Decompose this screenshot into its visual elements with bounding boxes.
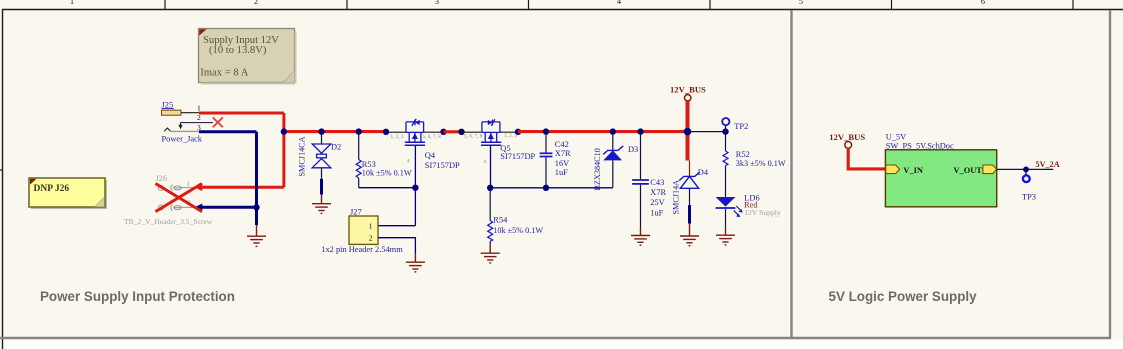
svg-text:SI7157DP: SI7157DP [425, 161, 460, 170]
ground GND LD6 [716, 227, 735, 245]
wire navy bus to TP2 [688, 131, 726, 133]
node C42 bottom junction [543, 185, 549, 191]
svg-text:25V: 25V [650, 198, 664, 207]
column tick marks [165, 0, 1073, 10]
svg-text:X7R: X7R [555, 149, 571, 158]
wire navy D2 to ground [320, 179, 323, 195]
svg-text:10k ±5% 0.1W: 10k ±5% 0.1W [493, 226, 543, 235]
connector J27 1x2 header [321, 208, 403, 255]
svg-text:1: 1 [186, 180, 190, 188]
LED LD6 [716, 193, 781, 227]
svg-text:D2: D2 [331, 143, 341, 152]
ground GND C43 [631, 228, 650, 246]
sheet border top line [2, 9, 1123, 11]
svg-text:TB_2_V_Header_3.5_Screw: TB_2_V_Header_3.5_Screw [124, 217, 213, 226]
node bus at red corner [281, 128, 287, 134]
wire navy V_OUT output [997, 168, 1053, 170]
wire gate R53 to Q4 gate [359, 187, 416, 189]
svg-text:SMCJ14CA: SMCJ14CA [298, 136, 307, 176]
connector J26 DNP screw header [124, 174, 213, 226]
wire J27 pin2 to ground [378, 238, 415, 254]
node bus at D2 [318, 128, 324, 134]
svg-text:4: 4 [407, 159, 410, 165]
panel divider horizontal bottom [0, 337, 1111, 339]
node bus at R53 [356, 128, 362, 134]
capacitor C42 [540, 132, 571, 188]
svg-text:U_5V: U_5V [886, 132, 906, 141]
pin lead Q4 right [424, 131, 444, 133]
wire Q5 gate vertical [490, 145, 492, 188]
svg-text:4: 4 [484, 159, 487, 165]
svg-text:TP3: TP3 [1022, 193, 1036, 202]
wire red J25 pin1 horizontal [199, 112, 284, 115]
ground GND R54 [481, 245, 500, 263]
title Power Supply Input Protection [40, 289, 235, 304]
svg-text:1: 1 [369, 222, 373, 231]
node TP3 junction [1023, 167, 1029, 173]
svg-text:12V_BUS: 12V_BUS [829, 132, 865, 142]
net label 5V_2A [1036, 160, 1060, 169]
svg-text:5V_2A: 5V_2A [1036, 160, 1060, 169]
svg-text:2: 2 [197, 113, 201, 122]
svg-text:3k3 ±5% 0.1W: 3k3 ±5% 0.1W [736, 159, 786, 168]
svg-text:5: 5 [799, 0, 803, 6]
wire red 12V_BUS vertical [686, 101, 690, 161]
wire red to sheet symbol V_IN [848, 148, 885, 169]
svg-text:R53: R53 [362, 160, 376, 169]
row tick left edge [0, 169, 3, 171]
svg-text:R54: R54 [493, 216, 508, 225]
node bus before Q5 [458, 129, 464, 135]
svg-text:6: 6 [981, 0, 985, 6]
svg-text:D3: D3 [628, 145, 638, 154]
ground GND main input [247, 225, 266, 246]
node J26 pin2 junction [253, 204, 259, 210]
svg-text:V_OUT: V_OUT [954, 166, 983, 175]
pin lead Q5 left [462, 131, 482, 133]
svg-text:4: 4 [617, 0, 621, 6]
wire navy to J26 pin2 with arrow [195, 204, 257, 212]
svg-text:5, 6, 7, 8: 5, 6, 7, 8 [464, 134, 483, 140]
svg-text:Q4: Q4 [425, 151, 436, 160]
svg-text:1: 1 [197, 103, 201, 112]
svg-text:SW_PS_5V.SchDoc: SW_PS_5V.SchDoc [886, 141, 954, 150]
node bus at D3 [610, 128, 616, 134]
TVS diode D2 SMCJ14CA [298, 132, 342, 179]
title 5V Logic Power Supply [829, 289, 978, 304]
svg-text:1, 2, 3: 1, 2, 3 [504, 133, 517, 139]
sheet border left line [2, 10, 4, 349]
node bus after Q5 [515, 129, 521, 135]
panel divider vertical right [1109, 10, 1111, 339]
svg-text:1uF: 1uF [650, 209, 663, 218]
svg-text:10k ±5% 0.1W: 10k ±5% 0.1W [362, 169, 412, 178]
node TP2 junction [722, 128, 728, 134]
testpoint TP3 [1022, 169, 1036, 201]
power port 12V_BUS left [670, 84, 706, 101]
svg-text:12V Supply: 12V Supply [744, 208, 781, 217]
svg-text:(10 to 13.8V): (10 to 13.8V) [209, 45, 267, 56]
note DNP J26 [29, 178, 107, 209]
svg-text:1, 2, 3: 1, 2, 3 [391, 134, 404, 140]
ground GND J27 [406, 254, 425, 272]
svg-text:V_IN: V_IN [903, 166, 923, 175]
svg-text:12V_BUS: 12V_BUS [670, 84, 706, 94]
pin lead Q5 right [500, 131, 518, 133]
svg-text:1x2 pin Header 2.54mm: 1x2 pin Header 2.54mm [321, 245, 403, 254]
node bus at C42 [543, 128, 549, 134]
svg-text:DNP J26: DNP J26 [34, 184, 70, 194]
wire red bus Q4 to Q5 [444, 130, 462, 133]
TVS diode D4 SMCJ14A [672, 161, 709, 215]
transistor Q4 SI7157DP [391, 119, 461, 170]
svg-text:5, 6, 7, 8: 5, 6, 7, 8 [423, 134, 442, 140]
wire navy D4 to ground [688, 205, 691, 224]
wire red vertical to J26 branch [282, 113, 285, 187]
sheet symbol U1 SW_PS_5V [885, 132, 996, 207]
svg-text:X7R: X7R [650, 188, 666, 197]
svg-text:J27: J27 [350, 208, 362, 217]
note Supply Input 12V [199, 29, 297, 85]
svg-text:3: 3 [435, 0, 439, 6]
svg-text:J26: J26 [156, 174, 168, 183]
wire red bus segment 2 [518, 130, 688, 133]
svg-text:1: 1 [70, 0, 74, 6]
svg-text:2: 2 [369, 234, 373, 243]
svg-text:5V Logic Power Supply: 5V Logic Power Supply [829, 289, 978, 304]
zener diode D3 BZX384C10 [593, 132, 638, 191]
wire red to J26 pin1 with arrow [195, 184, 284, 192]
svg-text:Imax = 8 A: Imax = 8 A [200, 68, 248, 79]
power port 12V_BUS right [829, 132, 865, 148]
no-ERC marker X on J25 pin 2 [213, 117, 223, 127]
testpoint TP2 [722, 118, 748, 132]
node bus after Q4 [440, 129, 446, 135]
wire navy J25 pin3 horizontal [199, 130, 257, 133]
node bus before Q4 [383, 129, 389, 135]
ground GND D2 [312, 195, 331, 214]
wire gate line Q5 to D3 [490, 187, 613, 189]
capacitor C43 [632, 132, 666, 228]
svg-text:1uF: 1uF [555, 168, 568, 177]
svg-text:C43: C43 [650, 178, 664, 187]
sheet entry V_IN [886, 165, 923, 175]
svg-text:BZX384C10: BZX384C10 [593, 148, 602, 190]
column numbers [70, 0, 985, 6]
transistor Q5 SI7157DP [464, 119, 536, 165]
sheet entry V_OUT [954, 165, 997, 175]
node bus at C43 [637, 128, 643, 134]
ground GND D4 [680, 224, 699, 246]
panel divider vertical center [790, 10, 792, 339]
node Q4 gate junction [412, 185, 418, 191]
resistor R53 [356, 132, 412, 188]
resistor R54 [488, 188, 544, 246]
svg-text:Power_Jack: Power_Jack [162, 134, 203, 143]
node Q5 gate junction [487, 185, 493, 191]
resistor R52 [723, 132, 786, 197]
svg-text:D4: D4 [698, 168, 709, 177]
svg-text:SMCJ14A: SMCJ14A [672, 180, 681, 215]
svg-text:Power Supply Input Protection: Power Supply Input Protection [40, 289, 235, 304]
pin lead Q4 left [386, 131, 406, 133]
wire navy vertical down to ground [255, 132, 258, 225]
node bus main junction 12V [684, 128, 692, 136]
svg-text:TP2: TP2 [734, 122, 748, 131]
wire red main bus segment 1 [284, 130, 386, 133]
svg-text:16V: 16V [555, 159, 569, 168]
wire Q4 gate vertical to J27 [378, 145, 415, 225]
DNP marker X on J26 [156, 184, 203, 212]
svg-text:SI7157DP: SI7157DP [500, 152, 535, 161]
svg-text:C42: C42 [555, 140, 569, 149]
svg-text:2: 2 [254, 0, 258, 6]
connector J25 power jack [162, 101, 214, 144]
